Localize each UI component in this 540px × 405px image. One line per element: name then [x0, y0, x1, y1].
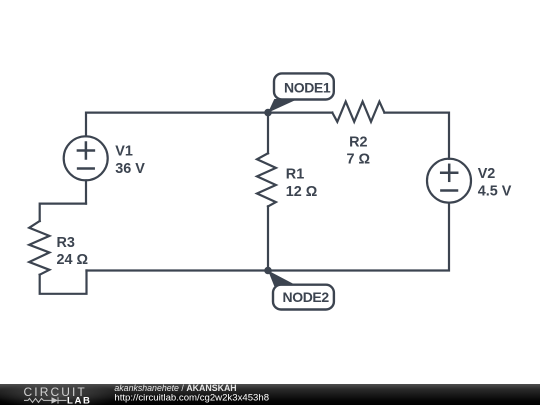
voltage source V2 circle	[427, 159, 471, 203]
resistor R3 zigzag	[29, 221, 49, 275]
node NODE1 callout tail	[268, 99, 298, 113]
svg-text:V2: V2	[478, 166, 496, 182]
node NODE1 callout box	[274, 73, 334, 99]
logo glow	[0, 383, 119, 405]
svg-text:7 Ω: 7 Ω	[347, 152, 371, 168]
wire bottom jog to node2	[87, 269, 269, 271]
resistor R1 zigzag	[257, 153, 276, 206]
svg-text:R1: R1	[286, 167, 304, 183]
wire V1 bottom to R3 top terminal	[40, 204, 86, 221]
wire R3 bottom lead and jog up to bottom wire	[40, 271, 87, 294]
V2 minus sign	[441, 189, 457, 192]
svg-text:R3: R3	[57, 235, 75, 251]
wire node1 to top-left corner down to V1 top	[86, 113, 268, 137]
wire V2 bottom to bottom-right corner to node2	[268, 203, 449, 271]
svg-text:36 V: 36 V	[115, 161, 145, 177]
resistor R1 top lead	[267, 113, 269, 154]
svg-text:12 Ω: 12 Ω	[286, 184, 318, 200]
svg-text:LAB: LAB	[67, 395, 92, 405]
resistor R1 bottom lead	[267, 206, 269, 270]
V2 plus sign	[441, 165, 457, 181]
resistor R2 zigzag	[332, 102, 384, 122]
junction node A (NODE1 dot)	[264, 109, 272, 117]
svg-text:4.5 V: 4.5 V	[478, 183, 512, 199]
svg-text:http://circuitlab.com/cg2w2k3x: http://circuitlab.com/cg2w2k3x453h8	[114, 392, 269, 403]
svg-text:NODE2: NODE2	[283, 289, 330, 305]
junction node B (NODE2 dot)	[264, 267, 272, 275]
node NODE2 callout box	[273, 285, 334, 310]
wire V1 bottom lead	[85, 180, 87, 203]
voltage source V1 circle	[64, 136, 108, 180]
CircuitLab logo symbol (resistor + diode)	[24, 397, 67, 403]
svg-text:V1: V1	[115, 144, 133, 160]
svg-text:NODE1: NODE1	[284, 80, 331, 96]
svg-text:24 Ω: 24 Ω	[57, 252, 89, 268]
wire node1 to R2 left terminal	[268, 111, 332, 113]
wire R2 right terminal to top-right corner down to V2 top	[384, 113, 449, 159]
svg-text:R2: R2	[349, 135, 367, 151]
node NODE2 callout tail	[268, 271, 298, 287]
V1 plus sign	[78, 143, 94, 159]
V1 minus sign	[78, 167, 94, 170]
